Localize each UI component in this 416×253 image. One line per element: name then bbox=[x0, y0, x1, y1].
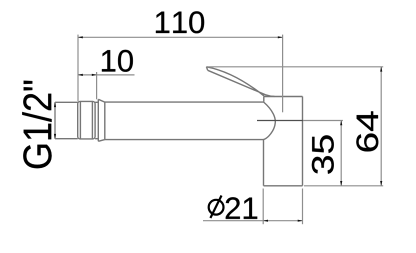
centerline crosshair bbox=[257, 120, 303, 122]
dim 35 ext top bbox=[303, 120, 343, 122]
label 21 bbox=[226, 197, 257, 219]
label 110 bbox=[156, 11, 204, 33]
arrow 35 top bbox=[340, 121, 342, 126]
dim 110 ext left bbox=[77, 35, 79, 102]
dim 110 line bbox=[78, 36, 283, 38]
arrow d21 right bbox=[298, 220, 303, 222]
label 35 bbox=[312, 135, 334, 173]
arrow 110 left bbox=[78, 36, 83, 38]
label diameter symbol bbox=[209, 196, 224, 219]
dim d21 line bbox=[203, 220, 303, 222]
arrow 35 bottom bbox=[340, 181, 342, 186]
body outline bbox=[264, 97, 303, 186]
flare cone bbox=[98, 99, 105, 141]
dim 10 ext right bbox=[96, 72, 98, 99]
neck bbox=[95, 102, 98, 138]
arrow G1/2 top bbox=[54, 102, 56, 107]
dim d21 ext right bbox=[302, 189, 304, 225]
dim 10 line bbox=[78, 74, 135, 76]
arrow G1/2 bottom bbox=[54, 134, 56, 139]
label 10 bbox=[102, 50, 133, 72]
dim G1/2 line bbox=[54, 102, 56, 138]
arrow d21 left bbox=[263, 220, 268, 222]
label 64 bbox=[356, 111, 378, 151]
arrow 10 left bbox=[78, 74, 83, 76]
dim 35 line bbox=[340, 121, 342, 186]
wall-side cylinder bbox=[55, 102, 78, 138]
dim 64/35 ext bottom bbox=[304, 185, 383, 187]
arrow 10 right bbox=[92, 74, 97, 76]
spout pipe bbox=[105, 102, 264, 140]
arrow 64 top bbox=[380, 67, 382, 72]
dim 64 line bbox=[380, 67, 382, 186]
lever handle bbox=[206, 67, 274, 97]
dim 110 ext right bbox=[282, 35, 284, 113]
valve dome arc bbox=[264, 102, 276, 140]
arrow 64 bottom bbox=[380, 181, 382, 186]
dim d21 ext left bbox=[262, 189, 264, 225]
arrow 110 right bbox=[278, 36, 283, 38]
label G1/2 inch bbox=[22, 81, 51, 168]
dim 64 ext top bbox=[206, 66, 383, 68]
thread block G1/2 bbox=[78, 101, 95, 138]
